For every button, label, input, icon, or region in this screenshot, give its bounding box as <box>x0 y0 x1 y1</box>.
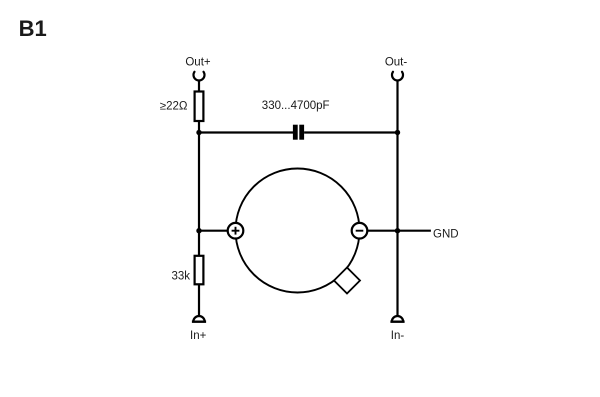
wire left rail to plus terminal <box>199 230 229 232</box>
terminal In+ <box>193 316 204 322</box>
svg-text:Out+: Out+ <box>185 57 211 69</box>
junction node D <box>395 228 400 233</box>
wire R2 to In+ terminal <box>198 284 200 315</box>
junction node C <box>196 228 201 233</box>
wire node A to capacitor left <box>199 131 293 133</box>
junction node A <box>196 130 201 135</box>
junction node B <box>395 130 400 135</box>
svg-text:330...4700pF: 330...4700pF <box>262 100 330 112</box>
svg-text:GND: GND <box>433 229 459 241</box>
plus terminal circle of B1 <box>228 223 244 239</box>
wire minus terminal to GND <box>368 230 431 232</box>
minus terminal circle of B1 <box>352 223 368 239</box>
wire capacitor right to node B <box>304 131 397 133</box>
transducer B1 body <box>236 169 360 293</box>
minus sign <box>356 230 364 232</box>
svg-text:In+: In+ <box>190 330 207 342</box>
terminal Out- <box>392 72 403 81</box>
wire R1 to node A <box>198 121 200 133</box>
wire right rail Out- down to In- <box>396 81 398 316</box>
capacitor C1 plate right <box>299 125 304 140</box>
svg-text:33k: 33k <box>171 271 190 283</box>
piezo marker diamond on B1 <box>334 268 360 294</box>
svg-text:B1: B1 <box>19 16 47 41</box>
svg-text:In-: In- <box>391 330 405 342</box>
svg-text:Out-: Out- <box>385 57 408 69</box>
capacitor C1 plate left <box>293 125 298 140</box>
resistor R2 <box>195 256 204 284</box>
terminal Out+ <box>193 72 204 81</box>
svg-text:≥22Ω: ≥22Ω <box>160 101 188 113</box>
plus sign <box>232 230 240 232</box>
wire left rail node A down to R2 <box>198 133 200 257</box>
terminal In- <box>392 316 403 322</box>
resistor R1 <box>195 92 204 122</box>
wire Out+ to R1 <box>198 81 200 93</box>
